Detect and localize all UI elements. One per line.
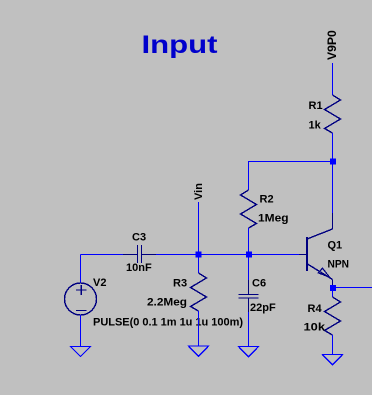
capacitor C3: [123, 245, 156, 263]
wire R2 top lead: [248, 162, 250, 191]
resistor R4: [325, 297, 341, 335]
svg-text:R4: R4: [308, 303, 323, 315]
resistor R3: [191, 273, 207, 311]
svg-text:Vin: Vin: [193, 183, 205, 200]
wire emitter node to right edge: [333, 287, 372, 289]
resistor R1: [325, 95, 341, 133]
ground under R4: [323, 355, 343, 366]
svg-text:22pF: 22pF: [250, 302, 276, 314]
wire main horizontal left segment to C3: [81, 254, 124, 256]
junction node R2/C6: [246, 252, 252, 258]
svg-text:Input: Input: [142, 31, 219, 59]
wire R2 bottom lead: [248, 228, 250, 255]
ground under V2: [71, 347, 91, 357]
ground under C6: [239, 347, 259, 357]
wire V2 top lead: [80, 255, 82, 284]
capacitor C6: [239, 280, 259, 312]
svg-text:C3: C3: [132, 232, 146, 244]
resistor R2: [241, 190, 257, 228]
junction collector node: [330, 159, 336, 165]
svg-text:NPN: NPN: [328, 259, 350, 271]
svg-text:1k: 1k: [309, 120, 322, 132]
svg-text:R3: R3: [173, 278, 187, 290]
wire V2 bottom lead: [80, 315, 82, 347]
svg-text:10nF: 10nF: [126, 262, 152, 274]
svg-text:Q1: Q1: [328, 240, 343, 252]
junction emitter node: [330, 285, 336, 291]
wire R3 top lead: [198, 255, 200, 274]
svg-text:R1: R1: [309, 100, 323, 112]
svg-text:PULSE(0 0.1 1m 1u 1u 100m): PULSE(0 0.1 1m 1u 1u 100m): [93, 317, 243, 329]
ground under R3: [189, 346, 209, 356]
wire C6 top lead: [248, 255, 250, 281]
wire C3 to Q1 base: [156, 254, 299, 256]
wire Vin stub: [198, 202, 200, 255]
svg-text:R2: R2: [260, 194, 274, 206]
voltage source V2: [65, 283, 97, 315]
wire top horizontal R2 to collector node: [248, 161, 333, 163]
wire R3 bottom lead: [198, 311, 200, 346]
junction node Vin: [196, 252, 202, 258]
svg-text:1Meg: 1Meg: [258, 213, 289, 225]
svg-text:C6: C6: [252, 278, 266, 290]
svg-text:V9P0: V9P0: [325, 30, 339, 60]
transistor Q1: [299, 213, 333, 288]
wire C6 bottom lead: [248, 312, 250, 347]
wire V9P0 stub to R1: [332, 63, 334, 95]
svg-text:2.2Meg: 2.2Meg: [147, 297, 187, 309]
svg-text:10k: 10k: [304, 322, 327, 334]
wire R4 top lead: [332, 288, 334, 298]
wire R1 bottom to collector node: [332, 133, 334, 162]
svg-text:V2: V2: [93, 277, 106, 289]
wire collector node down to Q1: [332, 162, 334, 214]
wire R4 bottom lead: [332, 335, 334, 355]
